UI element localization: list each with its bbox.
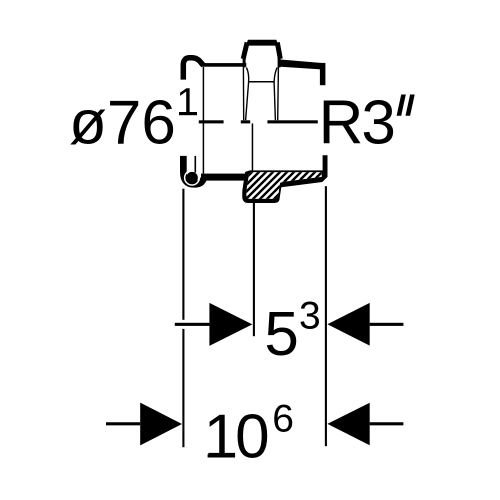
- dim row1 arrow right-pointing: [209, 303, 252, 346]
- socket inner edge vertical line: [203, 67, 205, 174]
- body top line left: [202, 63, 247, 67]
- hex nut right facet curve: [274, 68, 277, 121]
- dim row1 left line: [175, 323, 210, 326]
- foot bar for 1 in 10: [208, 454, 229, 457]
- svg-text:ø76: ø76: [69, 88, 176, 157]
- hatch lines: [205, 150, 379, 212]
- section region black boundary: [242, 155, 327, 203]
- hex nut top bar: [246, 40, 279, 46]
- o-ring white gap: [185, 170, 200, 185]
- svg-text:R3: R3: [319, 89, 394, 158]
- dimension extension line center: [253, 203, 255, 336]
- superscript 1 foot bar: [179, 112, 197, 115]
- press bead top (socket end, upper half): [183, 58, 203, 80]
- dim row1 arrow left-pointing: [327, 303, 369, 346]
- dim row2 right line: [370, 422, 404, 425]
- hex nut left edge thick: [243, 56, 246, 67]
- svg-text:3: 3: [299, 294, 321, 337]
- center line segment C: [267, 120, 317, 123]
- dim row2 left line: [106, 422, 140, 425]
- press bead bottom (section): [183, 156, 204, 184]
- thread outer line right (double line merged): [279, 59, 321, 69]
- dimension extension line left: [182, 189, 184, 320]
- socket wall bar (section): [201, 174, 246, 181]
- dimension extension line right: [325, 186, 327, 446]
- hex nut right edge thin: [277, 67, 280, 120]
- inch double prime mark: [397, 95, 406, 116]
- dim row1 right arrow line: [370, 323, 404, 326]
- dim row2 arrow right-pointing: [140, 403, 182, 446]
- svg-text:10: 10: [204, 402, 268, 471]
- bore inner edge below axis: [252, 123, 254, 171]
- svg-text:5: 5: [264, 300, 298, 369]
- hex nut left facet curve: [246, 68, 249, 121]
- hex nut left edge thin: [242, 67, 244, 120]
- hex nut right edge thick: [278, 56, 281, 67]
- hex nut left chamfer: [243, 42, 247, 58]
- center line segment B: [241, 120, 250, 123]
- center line segment A: [199, 120, 224, 123]
- svg-text:6: 6: [272, 397, 294, 440]
- dim row2 arrow left-pointing: [327, 403, 369, 446]
- hex nut right chamfer: [277, 42, 280, 58]
- o-ring dot: [186, 172, 198, 184]
- dimension extension line left lower part: [182, 329, 184, 447]
- thread end cap top right: [320, 63, 326, 85]
- bead inner thin line (section): [195, 156, 197, 173]
- svg-text:1: 1: [176, 81, 198, 124]
- hex nut facet horizontal line: [248, 81, 274, 83]
